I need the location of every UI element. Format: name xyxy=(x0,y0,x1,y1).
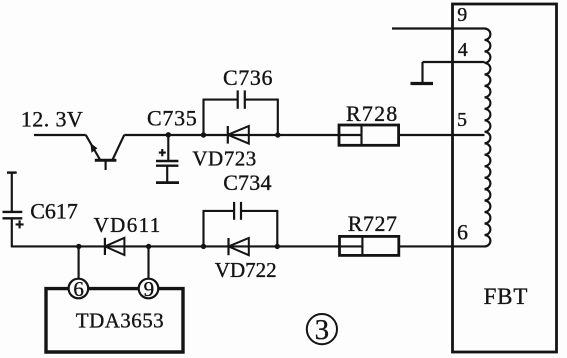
svg-text:6: 6 xyxy=(73,277,84,301)
svg-text:FBT: FBT xyxy=(484,284,529,309)
TDA pin 9 circle xyxy=(139,279,159,299)
node pin6 lead xyxy=(76,244,81,249)
resistor R727 body xyxy=(340,236,399,255)
svg-text:C734: C734 xyxy=(223,170,271,195)
diode VD723 triangle xyxy=(228,126,249,144)
diode VD611 cathode bar xyxy=(104,238,106,255)
C735 lead bottom xyxy=(166,166,168,182)
wire row1 left xyxy=(124,134,203,136)
wire row2 left xyxy=(12,245,340,247)
transistor emitter arrow xyxy=(90,143,97,153)
C734 bracket right xyxy=(276,211,278,247)
C617 plate top xyxy=(3,211,23,213)
C734 bracket top left xyxy=(203,210,235,212)
node combo2 right xyxy=(275,244,280,249)
C617 plus sign xyxy=(16,220,24,228)
left terminal tick xyxy=(7,171,17,173)
diode VD723 cathode bar xyxy=(227,126,229,144)
C736 bracket left xyxy=(202,100,204,135)
C736 bracket right xyxy=(277,100,279,135)
wire pin 9 xyxy=(392,27,485,29)
C736 plate right xyxy=(244,90,246,108)
ground bar xyxy=(411,82,434,85)
svg-text:C736: C736 xyxy=(223,65,273,90)
svg-text:VD722: VD722 xyxy=(215,258,277,282)
lead to TDA pin9 xyxy=(147,246,149,279)
svg-text:TDA3653: TDA3653 xyxy=(76,308,164,332)
svg-text:3: 3 xyxy=(315,314,330,346)
C735 plate bottom xyxy=(156,164,178,166)
resistor R728 body xyxy=(339,125,399,145)
diode VD722 triangle xyxy=(229,238,249,255)
R727 divider xyxy=(361,236,363,255)
node pin9 lead xyxy=(146,244,151,249)
C734 plate right xyxy=(240,202,242,220)
R727 mid line xyxy=(340,245,363,247)
wire row1 mid xyxy=(278,134,339,136)
svg-text:5: 5 xyxy=(457,109,467,131)
svg-text:4: 4 xyxy=(458,39,468,61)
ground lead xyxy=(421,62,423,83)
transistor base bar xyxy=(95,159,117,162)
FBT winding coil xyxy=(485,29,491,247)
svg-text:12. 3V: 12. 3V xyxy=(21,107,83,132)
wire pin 4 xyxy=(423,61,485,63)
C735 plus sign xyxy=(159,149,166,156)
node combo1 left xyxy=(201,132,206,137)
C735 end bar xyxy=(156,181,179,184)
C617 plate bottom xyxy=(3,217,23,219)
R728 divider xyxy=(360,125,362,145)
transistor collector diagonal xyxy=(112,135,124,160)
C735 lead top xyxy=(167,135,169,160)
wire row1 right to pin5 xyxy=(399,134,485,136)
wire left vertical upper xyxy=(11,173,13,211)
transistor base stub xyxy=(105,160,107,170)
svg-text:VD723: VD723 xyxy=(192,147,256,171)
diode VD611 triangle xyxy=(105,238,125,255)
lead to TDA pin6 xyxy=(78,246,80,279)
svg-text:C617: C617 xyxy=(30,198,78,223)
svg-text:6: 6 xyxy=(457,219,468,244)
C735 plate top xyxy=(156,160,178,162)
node combo2 left xyxy=(201,244,206,249)
R728 mid line xyxy=(339,134,362,136)
C736 plate left xyxy=(237,90,239,108)
C736 bracket top right xyxy=(245,99,279,101)
C734 bracket left xyxy=(202,211,204,247)
C736 bracket top left xyxy=(203,99,238,101)
TDA3653 box xyxy=(46,289,183,352)
svg-text:C735: C735 xyxy=(147,106,197,131)
svg-text:R728: R728 xyxy=(346,101,398,126)
TDA pin 6 circle xyxy=(69,279,89,299)
wire row1 under VD723 xyxy=(204,134,278,136)
node combo1 right xyxy=(275,132,280,137)
svg-text:9: 9 xyxy=(144,277,155,301)
transistor emitter diagonal xyxy=(86,135,101,160)
diode VD722 cathode bar xyxy=(227,238,229,255)
wire left vertical lower xyxy=(11,218,13,247)
C734 bracket top right xyxy=(241,210,278,212)
wire 12.3V xyxy=(34,134,86,136)
circled 3 figure number xyxy=(307,314,337,344)
FBT box xyxy=(453,4,557,352)
node C735 xyxy=(166,132,171,137)
svg-text:VD611: VD611 xyxy=(94,213,162,237)
svg-text:9: 9 xyxy=(457,4,467,26)
C734 plate left xyxy=(233,202,235,220)
svg-text:R727: R727 xyxy=(348,211,398,236)
wire row2 right to pin6 xyxy=(399,245,485,247)
